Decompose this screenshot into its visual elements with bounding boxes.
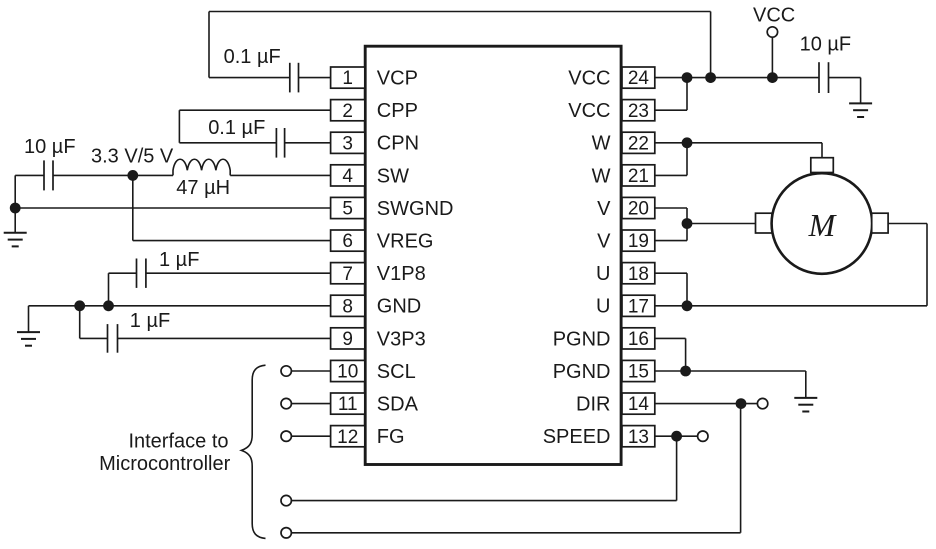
svg-text:21: 21 [628,166,649,187]
svg-text:11: 11 [338,394,358,415]
pin 13 box (right) [622,426,655,447]
node GND rail junction A [74,300,85,311]
svg-text:15: 15 [628,362,649,383]
pin 4 box (left) [331,165,365,186]
svg-text:18: 18 [628,264,649,285]
wire pin 21 W horizontal [655,174,687,176]
svg-text:VREG: VREG [377,231,434,253]
pin 5 box (left) [331,197,365,218]
node supply 3.3V/5V junction [127,170,138,181]
svg-text:1: 1 [342,68,353,89]
motor M1 body [772,173,873,274]
svg-text:V1P8: V1P8 [377,263,426,285]
wire V1P8 cap left segment [109,272,137,274]
svg-text:3: 3 [342,133,353,154]
wire bottom 1 horizontal [291,500,676,502]
wire pin 16 PGND horizontal [655,337,686,339]
terminal bottom open circle 2 [281,528,291,538]
wire C3 left stub [15,174,44,176]
wire pin 5 SWGND horizontal [15,207,330,209]
wire C2 to pin 3 [285,142,331,144]
svg-text:5: 5 [342,199,353,220]
wire C5 down leg [79,306,81,339]
wire CPP-CPN vertical [178,110,180,143]
inductor L1 47 uH [173,159,230,175]
svg-text:4: 4 [342,166,353,187]
ground symbol G3 (VCC cap) [849,103,872,117]
svg-text:13: 13 [628,427,649,448]
ground symbol G1 (input) [4,233,27,247]
svg-text:VCC: VCC [568,68,610,90]
pin 21 box (right) [622,165,655,186]
terminal VCC open circle [767,27,777,37]
IC U1 body (24-pin motor driver) [365,46,621,464]
capacitor C2 0.1 uF (CPP-CPN) [275,128,277,158]
node VCC junction 2 [705,72,716,83]
svg-text:M: M [808,207,838,243]
terminal bottom open circle 1 [281,495,291,505]
wire VCC terminal vertical [771,37,773,77]
wire pin 15 PGND horizontal [655,370,806,372]
svg-text:PGND: PGND [553,328,611,350]
svg-text:1 µF: 1 µF [130,310,170,332]
wire pin 19 V horizontal [655,240,687,242]
svg-text:16: 16 [628,329,649,350]
svg-text:SDA: SDA [377,394,419,416]
pin 7 box (left) [331,263,365,284]
ground symbol G2 (GND rail) [17,332,40,346]
wire V to motor [687,223,756,225]
wire pin 16 down leg [685,338,687,371]
wire U right vertical [926,224,928,306]
svg-text:22: 22 [628,133,649,154]
svg-text:SCL: SCL [377,361,416,383]
pin 15 box (right) [622,360,655,381]
node W junction [682,137,693,148]
wire pin 23 horizontal [655,109,687,111]
pin 18 box (right) [622,263,655,284]
motor M1 top terminal [811,158,834,173]
wire pin 13 SPEED horizontal [655,435,698,437]
svg-text:2: 2 [342,101,353,122]
node PGND junction [680,366,691,377]
pin 11 box (left) [331,393,365,414]
svg-text:FG: FG [377,426,405,448]
pin 1 box (left) [331,67,365,88]
wire motor right to corner [888,223,927,225]
capacitor C4 1 uF (V1P8) [136,259,138,288]
svg-text:8: 8 [342,296,353,317]
svg-text:W: W [592,133,611,155]
wire SCL to pin 10 [291,370,330,372]
terminal SDA open circle [281,398,291,408]
svg-text:VCC: VCC [753,5,795,27]
pin 17 box (right) [622,295,655,316]
pin 19 box (right) [622,230,655,251]
svg-text:3.3 V/5 V: 3.3 V/5 V [91,146,174,168]
node DIR junction [736,398,747,409]
wire VCP cap left segment [209,77,290,79]
wire C5 to pin 9 [118,337,331,339]
wire W down to motor [821,143,823,158]
svg-text:Microcontroller: Microcontroller [99,453,230,475]
wire pin 18 U horizontal [655,272,687,274]
pin 20 box (right) [622,197,655,218]
wire pin 8 GND rail [29,305,331,307]
wire GND rail to ground [28,306,30,332]
terminal SCL open circle [281,366,291,376]
wire C4 to pin 7 [146,272,331,274]
motor M1 right terminal [872,213,888,233]
capacitor C3 10 uF (input) [43,160,45,190]
wire C1 to pin 1 [299,77,331,79]
wire SDA to pin 11 [291,403,330,405]
wire pin 14 DIR horizontal [655,403,758,405]
svg-text:SW: SW [377,165,409,187]
node SWGND-input junction [10,203,21,214]
node V junction [682,218,693,229]
wire pin 22 W horizontal [655,142,822,144]
wire C5 left segment [80,337,108,339]
pin 3 box (left) [331,132,365,153]
pin 12 box (left) [331,426,365,447]
wire VREG vertical from supply node [132,175,134,240]
svg-text:47 µH: 47 µH [176,177,230,199]
terminal FG open circle [281,431,291,441]
terminal SPEED open circle [698,431,708,441]
pin 9 box (left) [331,328,365,349]
svg-text:Interface to: Interface to [128,430,228,452]
wire pin 20 down leg [686,208,688,224]
brace interface to microcontroller [241,365,265,538]
svg-text:V: V [597,231,611,253]
wire C6 to ground corner [829,77,861,79]
svg-text:CPP: CPP [377,100,418,122]
wire pin 20 V horizontal [655,207,687,209]
svg-text:23: 23 [628,101,649,122]
capacitor C5 1 uF (V3P3) [107,324,109,353]
svg-text:1 µF: 1 µF [159,249,199,271]
svg-text:7: 7 [342,264,353,285]
node VCC junction 3 [767,72,778,83]
wire VCC rail [655,77,819,79]
wire input cap down leg [14,175,16,232]
svg-text:0.1 µF: 0.1 µF [224,46,281,68]
pin 6 box (left) [331,230,365,251]
svg-text:17: 17 [628,296,649,317]
svg-text:VCP: VCP [377,68,418,90]
wire VCP top loop horizontal [209,11,711,13]
svg-text:12: 12 [337,427,358,448]
capacitor C6 10 uF (VCC) [818,62,820,93]
pin 2 box (left) [331,100,365,121]
wire pin 17 U horizontal [655,305,927,307]
svg-text:V: V [597,198,611,220]
wire CPN cap left segment [179,142,276,144]
node VCC junction 1 [682,72,693,83]
svg-text:V3P3: V3P3 [377,328,426,350]
motor M1 left terminal [756,213,772,233]
pin 23 box (right) [622,100,655,121]
svg-text:0.1 µF: 0.1 µF [208,117,265,139]
svg-text:24: 24 [628,68,650,89]
pin 16 box (right) [622,328,655,349]
wire C3 to inductor [53,174,173,176]
svg-text:CPN: CPN [377,133,419,155]
capacitor C1 0.1 uF (VCP) [289,63,291,93]
wire pin 18 down leg [686,273,688,306]
svg-text:10: 10 [337,362,358,383]
pin 8 box (left) [331,295,365,316]
wire VCP top loop left vertical [208,12,210,78]
svg-text:9: 9 [342,329,353,350]
wire pin 21 up leg [686,143,688,176]
svg-text:10 µF: 10 µF [24,136,76,158]
svg-text:19: 19 [628,231,649,252]
wire bottom 2 horizontal [291,532,740,534]
svg-text:U: U [596,296,610,318]
wire C6 ground down leg [860,78,862,104]
svg-text:6: 6 [342,231,353,252]
node U junction [682,300,693,311]
wire bottom 1 vertical (to SPEED) [676,436,678,500]
pin 22 box (right) [622,132,655,153]
node SPEED junction [671,431,682,442]
wire pin 23 up leg [686,78,688,111]
terminal DIR open circle [757,398,767,408]
svg-text:VCC: VCC [568,100,610,122]
svg-text:DIR: DIR [576,394,610,416]
wire pin 6 VREG horizontal [133,240,331,242]
pin 10 box (left) [331,360,365,381]
svg-text:PGND: PGND [553,361,611,383]
wire L1 to pin 4 SW [230,174,330,176]
wire pin 19 up leg [686,224,688,241]
wire C4 down leg [108,273,110,306]
svg-text:10 µF: 10 µF [800,34,852,56]
svg-text:SWGND: SWGND [377,198,454,220]
svg-text:U: U [596,263,610,285]
svg-text:W: W [592,165,611,187]
svg-text:GND: GND [377,296,421,318]
ground symbol G4 (PGND) [794,398,817,412]
wire FG to pin 12 [291,435,330,437]
pin 24 box (right) [622,67,655,88]
wire VCP top loop right vertical (to VCC rail) [710,12,712,78]
svg-text:20: 20 [628,199,649,220]
wire PGND ground down leg [805,371,807,398]
node GND rail junction B [103,300,114,311]
svg-text:14: 14 [628,394,650,415]
pin 14 box (right) [622,393,655,414]
wire bottom 2 vertical (to DIR) [740,404,742,533]
wire pin 2 CPP horizontal [179,109,330,111]
svg-text:SPEED: SPEED [543,426,611,448]
